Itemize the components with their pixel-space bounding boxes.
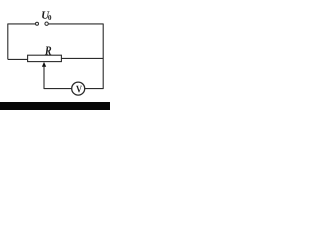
wire: left rail to resistor left end [8, 58, 28, 60]
voltmeter V (circle symbol) [72, 82, 85, 95]
potentiometer R wiper arrow head [42, 62, 46, 67]
wire: wiper down and right to voltmeter [44, 66, 72, 89]
terminal: input node right (open circle) [45, 22, 48, 25]
wire: resistor right end to right rail (junction) [61, 57, 103, 59]
black band (cropped print bar at bottom) [0, 102, 110, 110]
wire: top rail right segment, down right rail to voltmeter [48, 24, 103, 89]
label V (voltmeter letter) [76, 86, 82, 93]
potentiometer R body [28, 55, 62, 61]
label U0 (source voltage) [42, 11, 51, 20]
wire: top rail left segment, down left rail [8, 24, 36, 60]
terminal: input node left (open circle) [36, 22, 39, 25]
label R [45, 46, 51, 54]
